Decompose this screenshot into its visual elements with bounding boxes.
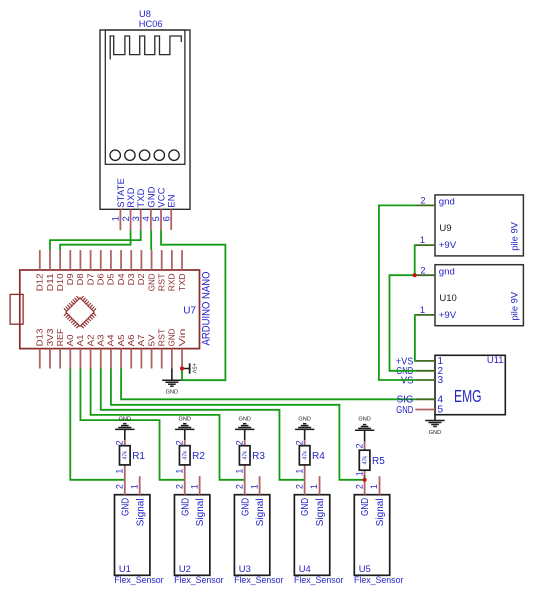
svg-text:D5: D5 xyxy=(106,273,116,285)
U7 top pin D7 xyxy=(85,250,95,285)
svg-text:D7: D7 xyxy=(85,273,95,285)
U7 bottom pin REF xyxy=(55,329,65,369)
svg-text:GND: GND xyxy=(167,329,177,347)
svg-text:D13: D13 xyxy=(35,328,45,346)
battery U10 pile 9V xyxy=(415,265,523,326)
svg-text:U7: U7 xyxy=(183,305,196,316)
svg-text:1: 1 xyxy=(294,469,304,474)
svg-text:2: 2 xyxy=(121,216,131,221)
svg-text:Signal: Signal xyxy=(135,498,146,526)
svg-text:D12: D12 xyxy=(35,273,45,291)
U7 top pin GND xyxy=(146,250,156,291)
U7 mcu chip glyph xyxy=(64,296,96,328)
U7 top pin RXD xyxy=(167,250,177,291)
svg-text:Flex_Sensor: Flex_Sensor xyxy=(294,574,343,585)
U8 pin 5 VCC xyxy=(151,187,166,230)
svg-text:1: 1 xyxy=(249,484,259,489)
arduino nano U7 body xyxy=(20,270,200,349)
wire A1 to U2 gnd junction xyxy=(80,369,184,480)
svg-text:Signal: Signal xyxy=(195,498,206,526)
U7 top pin D4 xyxy=(116,250,126,285)
svg-text:4: 4 xyxy=(141,216,151,221)
flex sensor U1 xyxy=(114,476,163,585)
svg-text:U9: U9 xyxy=(439,223,451,234)
svg-text:2: 2 xyxy=(354,443,364,448)
svg-text:1: 1 xyxy=(129,484,139,489)
svg-text:5V: 5V xyxy=(146,334,156,346)
svg-text:VCC: VCC xyxy=(156,187,166,207)
svg-text:+9V: +9V xyxy=(439,310,457,321)
svg-text:A4: A4 xyxy=(106,334,116,346)
svg-text:2: 2 xyxy=(420,196,425,206)
junction dot battery mid xyxy=(413,273,417,277)
resistor R5 47k xyxy=(354,442,385,480)
U11 pin 2 GND xyxy=(396,366,443,377)
wire U9 gnd to EMG VS xyxy=(379,205,415,380)
U7 top pin D8 xyxy=(75,250,85,285)
svg-text:D4: D4 xyxy=(116,273,126,285)
U7 top pin D3 xyxy=(126,250,136,285)
svg-text:1: 1 xyxy=(369,484,379,489)
U7 top pin D11 xyxy=(45,250,55,291)
U7 bottom pin A3 xyxy=(96,334,106,368)
svg-text:2: 2 xyxy=(174,484,184,489)
svg-text:EMG: EMG xyxy=(454,386,482,406)
U7 bottom pin 3V3 xyxy=(45,328,55,368)
svg-text:U10: U10 xyxy=(439,293,456,304)
U8 pin 3 TXD xyxy=(131,188,146,230)
svg-text:A3: A3 xyxy=(96,334,106,346)
svg-text:GND: GND xyxy=(240,498,251,516)
svg-text:2: 2 xyxy=(294,484,304,489)
svg-text:GND: GND xyxy=(429,430,441,436)
flex sensor U3 xyxy=(234,476,283,585)
svg-text:2: 2 xyxy=(235,440,245,445)
U7 top pin D2 xyxy=(136,250,146,285)
flex sensor U5 xyxy=(354,476,403,585)
svg-text:3: 3 xyxy=(131,216,141,221)
svg-text:pile 9V: pile 9V xyxy=(509,221,520,250)
svg-text:2: 2 xyxy=(175,440,185,445)
svg-text:gnd: gnd xyxy=(439,197,455,208)
svg-text:5: 5 xyxy=(437,405,443,416)
wire stub into R5/U5 junction xyxy=(364,475,366,480)
svg-text:R1: R1 xyxy=(132,451,145,462)
U7 bottom pin GND xyxy=(167,329,177,369)
junction dot Vin xyxy=(180,366,184,370)
svg-text:GND: GND xyxy=(120,498,131,516)
wire HC06 TXD to D11 xyxy=(50,230,141,250)
ground symbol above R1 xyxy=(115,417,134,441)
ground symbol above R2 xyxy=(175,417,194,441)
svg-text:1: 1 xyxy=(420,235,425,245)
svg-text:TXD: TXD xyxy=(136,188,146,207)
svg-text:EN: EN xyxy=(167,194,177,207)
svg-text:gnd: gnd xyxy=(439,267,455,278)
svg-text:GND: GND xyxy=(238,417,250,423)
U8 pin 4 GND xyxy=(141,186,156,230)
wire HC06 RXD to D10 xyxy=(60,230,130,250)
U7 bottom pin 5V xyxy=(146,334,156,368)
U7 bottom pin A0 xyxy=(65,334,75,368)
svg-text:R5: R5 xyxy=(372,456,385,467)
svg-text:D11: D11 xyxy=(45,273,55,291)
U8 pin 1 STATE xyxy=(111,178,126,230)
U11 pin 1 +VS xyxy=(396,356,444,367)
svg-text:GND: GND xyxy=(298,417,310,423)
svg-text:Flex_Sensor: Flex_Sensor xyxy=(174,574,223,585)
svg-text:Flex_Sensor: Flex_Sensor xyxy=(114,574,163,585)
svg-text:U2: U2 xyxy=(179,563,191,574)
U7 top pin D6 xyxy=(96,250,106,285)
wire U10 +9V to EMG +VS xyxy=(414,315,416,361)
wire A5 to EMG SIG xyxy=(121,369,415,400)
U8 pin 6 EN xyxy=(161,194,176,230)
svg-text:RST: RST xyxy=(157,329,167,347)
svg-text:1: 1 xyxy=(420,305,425,315)
svg-text:2: 2 xyxy=(115,440,125,445)
ground symbol under U7 xyxy=(162,369,181,396)
svg-text:RST: RST xyxy=(157,273,167,291)
svg-text:ARDUINO NANO: ARDUINO NANO xyxy=(201,271,213,345)
svg-text:2: 2 xyxy=(420,265,425,275)
U7 bottom pin A1 xyxy=(75,334,85,368)
wire HC06 VCC to Vin xyxy=(161,230,225,380)
svg-text:GND: GND xyxy=(396,405,413,416)
svg-text:GND: GND xyxy=(146,186,156,207)
U7 top pin D5 xyxy=(106,250,116,285)
ground symbol above R3 xyxy=(235,417,254,441)
ground symbol under U11 xyxy=(425,415,444,436)
svg-text:3: 3 xyxy=(437,375,443,386)
svg-text:+5V: +5V xyxy=(190,363,196,373)
svg-text:A6: A6 xyxy=(126,334,136,346)
svg-text:D3: D3 xyxy=(126,273,136,285)
resistor R4 47k xyxy=(294,440,325,480)
U8 pin 2 RXD xyxy=(121,187,136,230)
svg-text:Signal: Signal xyxy=(375,498,386,526)
svg-text:47k: 47k xyxy=(183,451,189,460)
svg-text:A1: A1 xyxy=(75,334,85,346)
ground symbol above R5 xyxy=(355,417,374,442)
svg-text:47k: 47k xyxy=(363,456,369,465)
svg-text:1: 1 xyxy=(175,469,185,474)
svg-text:A5: A5 xyxy=(116,334,126,346)
svg-text:U5: U5 xyxy=(359,563,371,574)
svg-text:1: 1 xyxy=(111,216,121,221)
svg-text:RXD: RXD xyxy=(126,187,136,207)
svg-text:STATE: STATE xyxy=(116,178,126,208)
U7 bottom pin A2 xyxy=(85,334,95,368)
svg-text:2: 2 xyxy=(354,484,364,489)
svg-text:HC06: HC06 xyxy=(139,19,163,29)
svg-text:2: 2 xyxy=(115,484,125,489)
svg-text:Vin: Vin xyxy=(177,328,187,346)
svg-text:D10: D10 xyxy=(55,273,65,291)
wire A3 to U4 gnd junction xyxy=(101,369,305,480)
svg-text:2: 2 xyxy=(294,440,304,445)
bluetooth module U8 HC06 body xyxy=(100,30,190,209)
svg-text:GND: GND xyxy=(300,498,311,516)
svg-text:U1: U1 xyxy=(119,563,131,574)
U7 bottom pin A7 xyxy=(136,334,146,368)
svg-text:GND: GND xyxy=(360,498,371,516)
U7 bottom pin A5 xyxy=(116,334,126,368)
svg-text:U11: U11 xyxy=(487,355,504,366)
U7 bottom pin RST xyxy=(157,329,167,369)
svg-text:A2: A2 xyxy=(85,334,95,346)
flex sensor U4 xyxy=(294,476,343,585)
svg-text:U4: U4 xyxy=(299,563,311,574)
svg-text:D9: D9 xyxy=(65,273,75,285)
U7 bottom pin A6 xyxy=(126,334,136,368)
wire A2 to U3 gnd junction xyxy=(91,369,245,480)
flex sensor U2 xyxy=(174,476,223,585)
svg-text:1: 1 xyxy=(189,484,199,489)
U11 pin 3 VS xyxy=(401,375,444,386)
svg-text:Flex_Sensor: Flex_Sensor xyxy=(354,574,403,585)
wire Vin junction drop xyxy=(181,369,183,381)
svg-text:47k: 47k xyxy=(303,451,309,460)
U7 top pin D9 xyxy=(65,250,75,285)
svg-text:5: 5 xyxy=(151,216,161,221)
svg-text:47k: 47k xyxy=(243,451,249,460)
+5V power flag xyxy=(182,363,196,374)
battery U9 pile 9V xyxy=(415,195,523,256)
U7 top pin D12 xyxy=(35,250,45,291)
svg-text:1: 1 xyxy=(354,471,364,476)
svg-text:Signal: Signal xyxy=(315,498,326,526)
U7 top pin RST xyxy=(157,250,167,291)
U7 bottom pin A4 xyxy=(106,334,116,368)
svg-text:D2: D2 xyxy=(136,273,146,285)
svg-text:TXD: TXD xyxy=(177,273,187,291)
U11 pin 4 SIG xyxy=(397,395,444,406)
resistor R3 47k xyxy=(235,440,266,480)
wire HC06 GND to arduino GND xyxy=(150,230,152,250)
svg-text:2: 2 xyxy=(234,484,244,489)
svg-text:RXD: RXD xyxy=(167,273,177,291)
svg-text:1: 1 xyxy=(309,484,319,489)
U7 top pin D10 xyxy=(55,250,65,291)
svg-text:+9V: +9V xyxy=(439,240,457,251)
EMG module U11 body xyxy=(435,355,505,414)
svg-text:GND: GND xyxy=(358,417,370,423)
junction dot R5/U5 xyxy=(363,478,367,482)
svg-text:GND: GND xyxy=(179,417,191,423)
svg-text:GND: GND xyxy=(180,498,191,516)
resistor R2 47k xyxy=(175,440,206,480)
U7 bottom pin Vin xyxy=(177,328,187,368)
U7 top pin TXD xyxy=(177,250,187,291)
svg-text:REF: REF xyxy=(55,329,65,347)
svg-text:U3: U3 xyxy=(239,563,251,574)
svg-text:A7: A7 xyxy=(136,334,146,346)
svg-text:D8: D8 xyxy=(75,273,85,285)
svg-text:D6: D6 xyxy=(96,273,106,285)
ground symbol above R4 xyxy=(295,417,314,441)
svg-text:GND: GND xyxy=(119,417,131,423)
svg-text:A0: A0 xyxy=(65,334,75,346)
wire U10 gnd to EMG GND xyxy=(390,275,416,371)
svg-text:R2: R2 xyxy=(192,451,205,462)
svg-text:R4: R4 xyxy=(312,451,325,462)
svg-text:3V3: 3V3 xyxy=(45,328,55,346)
svg-text:GND: GND xyxy=(166,390,178,396)
svg-text:R3: R3 xyxy=(252,451,265,462)
U7 bottom pin D13 xyxy=(35,328,45,368)
wire A4 to U5 gnd junction xyxy=(111,369,365,480)
svg-text:1: 1 xyxy=(115,469,125,474)
svg-text:6: 6 xyxy=(161,216,171,221)
svg-text:47k: 47k xyxy=(123,451,129,460)
svg-text:GND: GND xyxy=(146,273,156,291)
svg-text:pile 9V: pile 9V xyxy=(509,291,520,320)
wire U9 +9V to U10 gnd xyxy=(414,245,417,275)
resistor R1 47k xyxy=(115,440,146,480)
svg-text:Signal: Signal xyxy=(255,498,266,526)
svg-text:U8: U8 xyxy=(139,9,151,19)
wire A0 to U1 gnd junction xyxy=(70,369,125,480)
U11 pin 5 GND xyxy=(396,405,443,416)
svg-text:1: 1 xyxy=(235,469,245,474)
U7 usb connector xyxy=(10,294,23,324)
svg-text:Flex_Sensor: Flex_Sensor xyxy=(234,574,283,585)
